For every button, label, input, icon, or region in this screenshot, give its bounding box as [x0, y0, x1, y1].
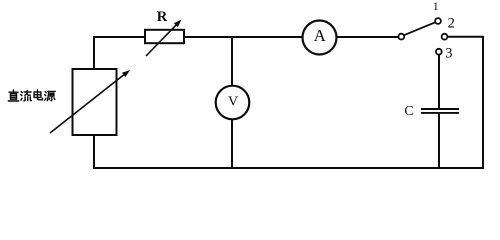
wire bottom horizontal	[93, 167, 484, 169]
源	[45, 91, 56, 100]
电	[34, 90, 42, 100]
svg-text:V: V	[228, 95, 238, 110]
switch pole	[398, 34, 404, 40]
wire contact2 to right edge	[447, 36, 483, 38]
label 3	[445, 46, 452, 62]
wire top middle (resistor to ammeter)	[184, 36, 303, 38]
svg-text:3: 3	[445, 46, 452, 62]
label R	[157, 9, 168, 25]
label 直流电源 (DC power source)	[8, 90, 55, 101]
DC power source adjustment arrow	[50, 70, 130, 133]
wire voltmeter branch upper	[231, 37, 233, 86]
wire left vertical lower	[93, 135, 95, 169]
voltmeter V	[216, 86, 250, 120]
resistor R adjustment arrow	[146, 20, 182, 57]
switch contact 1	[435, 18, 441, 24]
wire left vertical upper	[93, 36, 95, 69]
svg-text:R: R	[157, 9, 168, 25]
wire voltmeter branch lower	[231, 119, 233, 168]
wire ammeter to switch pole	[337, 36, 399, 38]
DC power source box	[73, 69, 117, 135]
流	[21, 90, 32, 101]
svg-text:1: 1	[433, 1, 439, 13]
wire top-left horizontal	[94, 36, 145, 38]
wire right vertical	[482, 36, 484, 169]
label 2	[448, 16, 455, 32]
ammeter A	[303, 21, 337, 55]
switch contact 2	[442, 34, 448, 40]
switch lever (to contact 1)	[404, 22, 435, 35]
capacitor C plates	[421, 109, 459, 113]
wire capacitor to bottom	[438, 113, 440, 168]
label 1	[433, 1, 439, 13]
直	[8, 90, 18, 101]
svg-text:C: C	[404, 104, 413, 119]
svg-text:A: A	[314, 26, 327, 45]
label C	[404, 104, 413, 119]
wire contact3 to capacitor	[438, 55, 440, 109]
resistor R (variable)	[145, 30, 184, 43]
svg-text:2: 2	[448, 16, 455, 32]
switch contact 3	[436, 49, 442, 55]
